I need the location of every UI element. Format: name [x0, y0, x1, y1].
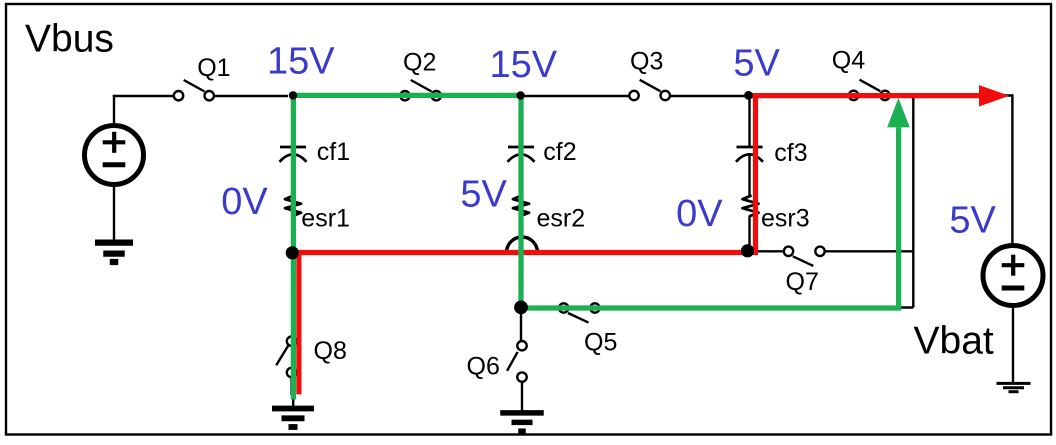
- svg-text:cf2: cf2: [543, 138, 576, 166]
- svg-text:15V: 15V: [490, 44, 558, 86]
- svg-text:cf3: cf3: [774, 139, 807, 167]
- svg-text:esr1: esr1: [301, 205, 350, 233]
- svg-text:Q7: Q7: [786, 268, 819, 296]
- svg-text:Q5: Q5: [584, 328, 617, 356]
- svg-text:Q8: Q8: [314, 337, 347, 365]
- svg-text:0V: 0V: [221, 181, 268, 223]
- svg-text:Q3: Q3: [630, 48, 663, 76]
- svg-text:5V: 5V: [460, 174, 507, 216]
- svg-text:Q2: Q2: [403, 49, 436, 77]
- svg-text:5V: 5V: [949, 200, 996, 242]
- svg-text:Q6: Q6: [467, 352, 500, 380]
- svg-text:Vbat: Vbat: [914, 320, 994, 363]
- svg-text:Q1: Q1: [197, 54, 230, 82]
- svg-text:Vbus: Vbus: [25, 18, 114, 61]
- svg-text:Q4: Q4: [832, 46, 865, 74]
- svg-text:15V: 15V: [267, 40, 335, 82]
- svg-text:0V: 0V: [676, 193, 723, 235]
- svg-text:5V: 5V: [733, 43, 780, 85]
- svg-text:esr2: esr2: [537, 205, 586, 233]
- svg-text:cf1: cf1: [317, 138, 350, 166]
- svg-text:esr3: esr3: [761, 205, 810, 233]
